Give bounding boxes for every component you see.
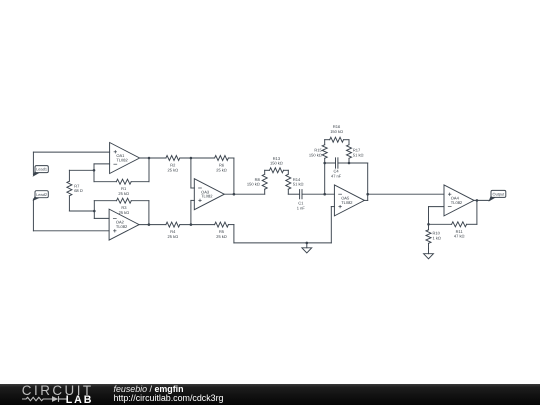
wire OA3 + branch	[190, 200, 192, 224]
wire R3 to OA2 output	[148, 201, 150, 225]
resistor R15	[322, 145, 327, 159]
svg-text:47 nF: 47 nF	[331, 174, 342, 179]
label C1 1nF	[297, 201, 306, 211]
junction R6 feedback on output wire	[233, 193, 236, 196]
wire R13 right lead	[284, 169, 289, 171]
label R17 51k	[353, 148, 364, 158]
resistor R5	[215, 222, 229, 227]
label R8 150k	[247, 177, 261, 187]
wire Lead2 to OA2 + input	[33, 230, 109, 232]
wire OA3 - stub	[191, 187, 194, 189]
svg-text:Lead2: Lead2	[36, 192, 47, 197]
wire R16 left lead	[325, 139, 330, 141]
label R15 150k	[309, 148, 323, 158]
svg-text:150 kΩ: 150 kΩ	[270, 161, 283, 166]
resistor R3	[117, 198, 132, 203]
wire R11 right	[467, 223, 477, 225]
junction OA2 output / feedback	[148, 223, 151, 226]
wire R3 right	[131, 200, 149, 202]
wire R1 to OA1 output	[148, 158, 150, 182]
wire OA5 + vertical	[330, 207, 332, 243]
svg-text:47 kΩ: 47 kΩ	[454, 234, 465, 239]
wire C4 right to R17	[338, 162, 349, 164]
wire R7 top branch	[69, 169, 94, 171]
wire R11 left	[429, 223, 452, 225]
svg-text:25 kΩ: 25 kΩ	[118, 191, 129, 196]
wire R10 bottom lead	[428, 243, 430, 248]
junction OA5 output to OA4	[366, 193, 369, 196]
svg-text:TL082: TL082	[116, 158, 128, 163]
resistor R14	[286, 174, 291, 189]
node flag Output	[489, 190, 506, 201]
resistor R7	[67, 181, 72, 196]
svg-text:Lead1: Lead1	[36, 167, 47, 172]
node flag Lead1	[33, 166, 49, 177]
wire R13 left lead	[265, 169, 270, 171]
svg-text:25 kΩ: 25 kΩ	[216, 234, 227, 239]
wire OA4 - vertical	[428, 207, 430, 225]
label R3 25k	[119, 205, 130, 215]
wire feedback right	[349, 162, 368, 164]
logo squiggle: wire + resistor + diode	[22, 395, 67, 403]
resistor R11	[452, 222, 467, 227]
junction R17/C4	[348, 162, 351, 165]
wire R1 left	[94, 181, 116, 183]
resistor R17	[347, 145, 352, 159]
wire R17 bottom lead	[348, 158, 350, 163]
wire Lead1 to OA1 + input	[33, 151, 109, 153]
label C4 47nF	[331, 169, 342, 179]
wire C1 to OA5 - input	[302, 193, 334, 195]
junction ground tap	[306, 242, 309, 245]
label R4 25k	[168, 229, 179, 239]
resistor R10	[426, 230, 431, 244]
label R5 25k	[216, 229, 227, 239]
wire R5 right	[228, 224, 234, 226]
resistor R2	[166, 156, 180, 161]
resistor R16	[330, 137, 344, 142]
label R2 25k	[168, 163, 179, 173]
wire R3 left	[94, 200, 116, 202]
op-amp OA3	[194, 179, 224, 210]
ground	[302, 243, 312, 253]
resistor R13	[270, 168, 284, 173]
wire R15 bottom lead	[324, 158, 326, 163]
svg-text:25 kΩ: 25 kΩ	[119, 210, 130, 215]
op-amp OA5	[334, 185, 364, 216]
wire OA4 output	[474, 199, 490, 201]
wire feedback down to OA5 output	[367, 163, 369, 200]
label R11 47k	[454, 229, 465, 239]
wire R5 down to ground rail	[233, 225, 235, 243]
wire OA5 + stub	[331, 206, 334, 208]
wire R17 top lead	[348, 140, 350, 145]
wire Lead1 vertical	[32, 152, 34, 175]
svg-text:TL082: TL082	[201, 194, 213, 199]
wire OA1 - input stub	[94, 163, 110, 165]
wire OA1 - node vertical	[93, 164, 95, 182]
wire OA3 output to R8	[224, 193, 264, 195]
svg-text:Output: Output	[493, 192, 506, 197]
junction OA1- / R7 top	[93, 169, 96, 172]
footer text	[114, 385, 224, 403]
wire R11 up to output	[476, 200, 478, 224]
wire R7 bottom lead	[68, 196, 70, 211]
junction R15/C4	[323, 162, 326, 165]
capacitor C4	[335, 158, 337, 168]
wire R10 top lead	[428, 224, 430, 230]
node flag Lead2	[33, 191, 49, 201]
wire R14 to C1	[288, 193, 299, 195]
op-amp OA1	[110, 143, 140, 174]
capacitor C1	[299, 190, 301, 199]
svg-text:TL082: TL082	[116, 224, 128, 229]
junction OA1 output / feedback	[148, 157, 151, 160]
junction R10/R11	[427, 223, 430, 226]
svg-text:1 kΩ: 1 kΩ	[433, 236, 441, 241]
resistor R6	[215, 156, 229, 161]
resistor R1	[116, 179, 131, 184]
wire ground rail	[234, 242, 331, 244]
svg-text:TL082: TL082	[451, 200, 463, 205]
wire OA1 output	[140, 157, 166, 159]
wire R2 to R6	[180, 157, 215, 159]
wire R8 top lead	[264, 170, 266, 174]
label R10 1k	[433, 231, 441, 241]
wire R7 bottom branch	[69, 210, 94, 212]
resistor R4	[166, 222, 180, 227]
wire to C4 left	[325, 162, 336, 164]
wire R8 bottom lead to corner	[264, 189, 266, 194]
op-amp OA4	[444, 185, 474, 216]
CircuitLab logo	[22, 383, 94, 398]
ground R10	[424, 249, 434, 259]
junction OA5 - node	[323, 193, 326, 196]
wire OA3 + stub	[191, 199, 194, 201]
wire R14 bottom lead	[287, 189, 289, 194]
wire R4 to R5	[180, 224, 215, 226]
wire R15 top lead	[324, 140, 326, 145]
wire R16 right lead	[344, 139, 350, 141]
svg-text:25 kΩ: 25 kΩ	[216, 167, 227, 172]
wire OA5 feedback vertical	[324, 163, 326, 194]
junction R4/R5/OA3+	[190, 223, 193, 226]
junction R2/R6/OA3-	[190, 157, 193, 160]
svg-text:25 kΩ: 25 kΩ	[168, 234, 179, 239]
wire OA2 - node vertical	[93, 201, 95, 219]
footer bar	[0, 384, 540, 405]
wire OA5 out to OA4 + input	[368, 193, 444, 195]
label R7 68 ohm	[74, 183, 83, 193]
wire OA4 - stub	[429, 206, 445, 208]
wire R1 right	[131, 181, 149, 183]
svg-text:150 kΩ: 150 kΩ	[309, 152, 322, 157]
label R14 51k	[293, 177, 304, 187]
wire OA2 output	[139, 224, 166, 226]
wire R6 down to OA3 output	[233, 158, 235, 194]
wire OA3 - branch	[190, 158, 192, 188]
junction OA2- / R7 bottom	[93, 210, 96, 213]
wire R7 top lead	[68, 170, 70, 181]
junction OA4 output / feedback	[476, 199, 479, 202]
svg-text:TL082: TL082	[341, 200, 353, 205]
resistor R8	[262, 174, 267, 189]
label R16 150k	[330, 124, 343, 134]
wire Lead2 vertical	[32, 199, 34, 231]
label R1 25k	[118, 186, 129, 196]
wire OA5 tip lead	[364, 199, 367, 201]
svg-text:51 kΩ: 51 kΩ	[353, 152, 364, 157]
label R13 150k	[270, 156, 283, 166]
svg-text:1 nF: 1 nF	[297, 206, 306, 211]
wire R6 right	[228, 157, 234, 159]
svg-text:25 kΩ: 25 kΩ	[168, 167, 179, 172]
svg-text:150 kΩ: 150 kΩ	[247, 182, 260, 187]
wire R14 top lead	[287, 170, 289, 174]
wire OA2 - input stub	[94, 217, 109, 219]
op-amp OA2	[109, 209, 139, 240]
svg-text:51 kΩ: 51 kΩ	[293, 182, 304, 187]
label R6 25k	[216, 163, 227, 173]
svg-text:150 kΩ: 150 kΩ	[330, 129, 343, 134]
svg-text:68 Ω: 68 Ω	[74, 188, 83, 193]
